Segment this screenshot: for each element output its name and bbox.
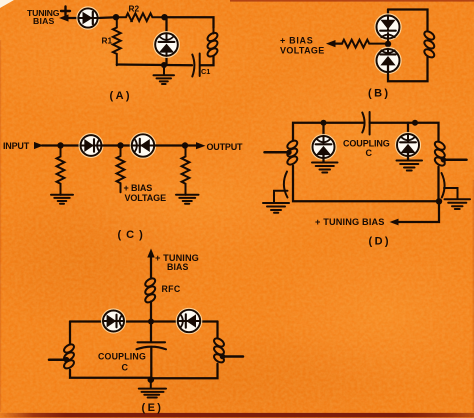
page edge artifacts [0,0,14,8]
wire top right to tank [165,17,214,28]
top horizontal wire (E) [70,320,218,322]
svg-text:+ TUNING BIAS: + TUNING BIAS [315,217,385,227]
svg-text:(C): (C) [118,229,148,241]
varactor diode top (circuit B) [375,10,400,45]
curved tap-ground wire (D left) [284,172,288,198]
varactor diode left (circuit D) [312,123,336,162]
node (center junction C) [117,142,123,148]
tap wire (E right coil) [220,354,243,360]
varactor diode left (circuit E) [102,310,125,333]
resistor R1 (vertical) [113,17,121,65]
plus sign (tuning bias polarity) [61,7,70,16]
label + BIAS VOLTAGE (C) [124,183,167,203]
coupling capacitor (D) [362,112,369,135]
ground (C right) [176,195,199,204]
tap wire (E left coil) [49,357,69,363]
wire left coil to bottom (D) [293,166,439,202]
svg-text:BIAS: BIAS [33,16,55,26]
node (top center junction E) [148,319,154,325]
wire cap to bottom node (E) [150,348,152,380]
inductor right (circuit E) [213,337,226,364]
svg-text:VOLTAGE: VOLTAGE [125,193,167,203]
bias arrow (D) [390,219,399,226]
arrow to bias supply (B) [326,40,342,47]
top wire left (D) [293,123,363,140]
svg-text:RFC: RFC [162,284,181,294]
svg-text:R1: R1 [102,35,113,45]
wire diode2 to output node (C) [154,144,185,146]
ground (circuit A) [154,65,175,84]
bottom wire of A [117,63,192,66]
node (junction R1/R2) [113,14,119,20]
label COUPLING C (D) [343,139,390,158]
svg-text:INPUT: INPUT [3,141,30,151]
shunt resistor left (C) [57,146,65,195]
varactor diode right (circuit C) [131,133,155,157]
node (top wire right junction D) [412,120,418,126]
bottom wire left (E) [70,370,151,378]
top wire (B) [388,10,428,32]
wire center node to diode2 (C) [121,144,133,146]
svg-text:VOLTAGE: VOLTAGE [280,46,325,56]
input arrow [34,142,60,149]
node (bottom junction E) [148,376,155,383]
label TUNING BIAS [27,8,60,26]
node (bottom junction, circuit A) [161,62,167,68]
wire input node to diode1 (C) [61,144,82,146]
resistor R2 [116,13,164,21]
wire top node to coupling cap (E) [150,322,152,342]
wire diode1 to center node (C) [101,144,120,146]
node (bias junction D) [436,198,442,204]
output arrow [185,142,206,149]
coupling capacitor (E) [137,342,167,349]
svg-text:C1: C1 [201,67,210,76]
inductor RFC (E) [144,277,157,304]
arrow to tuning bias supply [59,14,78,21]
bias resistor (C) [117,146,125,193]
svg-text:OUTPUT: OUTPUT [207,142,244,152]
varactor diode right (circuit D) [396,123,420,160]
tap ground connection (D left) [274,191,288,203]
svg-text:(A): (A) [110,90,132,102]
svg-text:R2: R2 [129,3,140,13]
svg-text:COUPLING: COUPLING [98,352,146,362]
node (top wire left junction D) [321,120,327,126]
node (junction R2/varactor) [161,14,167,20]
varactor diode right (circuit E) [177,309,201,333]
inductor right (circuit D) [433,140,446,167]
node (input junction) [57,142,63,148]
inductor (circuit B) [423,30,436,59]
bias resistor (B) [342,40,386,48]
svg-text:+ BIAS: + BIAS [280,35,313,45]
shunt resistor right (C) [182,146,190,195]
inductor left (circuit E) [63,343,76,370]
tuning bias arrow (E) [147,249,154,279]
tap wire (D left coil) [265,150,292,155]
right branch wire (E) [216,322,218,339]
ground (D left tap) [263,203,289,213]
varactor diode left (circuit C) [80,134,103,157]
svg-text:(E): (E) [142,402,164,414]
left branch wire (E) [69,322,71,345]
svg-text:C: C [122,363,129,373]
ground (C left) [51,195,73,204]
bottom wire right (E) [151,364,218,379]
svg-text:BIAS: BIAS [167,262,188,272]
wire diode to node 1 [98,16,116,19]
curved tap-ground wire (D right) [442,173,445,198]
capacitor C1 [192,54,199,77]
label + BIAS VOLTAGE [280,35,325,55]
label + TUNING BIAS (E) [155,253,199,272]
svg-text:C: C [366,148,373,158]
bias feed wire (D) [397,201,439,222]
ground (D left varactor) [312,163,338,173]
svg-text:+ BIAS: + BIAS [124,183,153,193]
svg-text:(B): (B) [368,88,390,100]
tap wire (D right coil) [441,157,467,162]
label COUPLING C (E) [98,352,146,373]
svg-text:(D): (D) [369,236,391,248]
wire RFC to top node (E) [150,302,152,322]
inductor L (tank coil, circuit A) [206,28,219,58]
bottom wire (B) [388,57,428,82]
wire right coil to bottom (D) [437,167,439,202]
top wire right (D) [370,123,439,141]
inductor left (circuit D) [286,139,299,166]
node (junction between varactors, B) [385,41,391,47]
node (output junction C) [182,142,188,148]
tap ground connection (D right) [444,188,458,199]
varactor diode bottom (circuit B) [375,44,400,73]
varactor diode (circuit A) [154,17,179,65]
ground (D right varactor) [397,161,423,171]
diode D1 (series tuning-bias diode) [77,7,98,28]
ground (circuit E) [139,380,166,398]
wire coil to C1 [200,56,214,65]
ground (D right tap) [445,199,471,209]
